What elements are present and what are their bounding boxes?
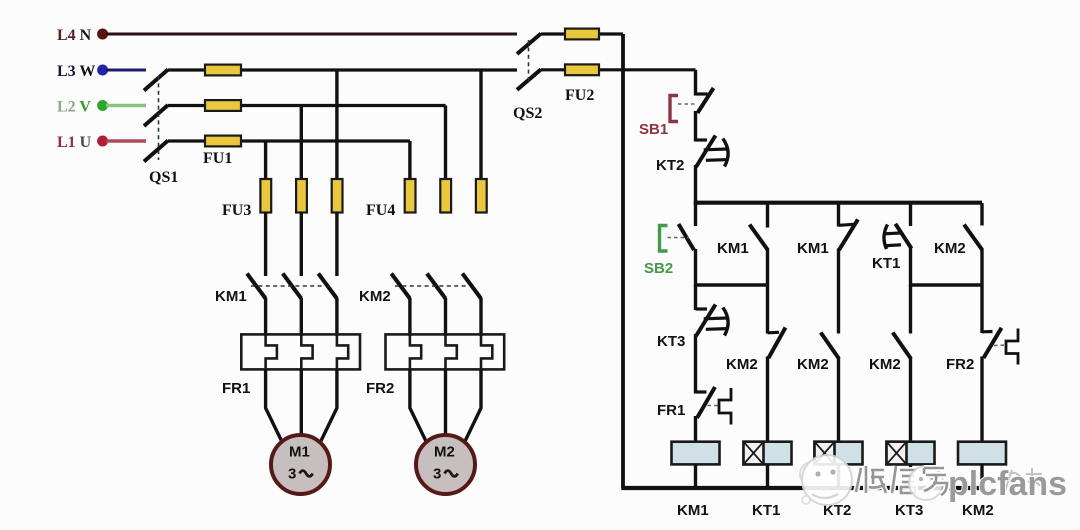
switch QS2 pole 1 blade <box>517 34 541 55</box>
svg-text:KM1: KM1 <box>797 240 829 257</box>
watermark glyph hao <box>924 468 947 495</box>
svg-text:FU3: FU3 <box>222 202 251 219</box>
wire L2 phase after QS1 <box>168 104 446 107</box>
thermal contact FR1 blade <box>697 387 715 418</box>
thermal relay FR2 heater 3 <box>481 334 492 369</box>
fuse FU2 pole 2 <box>565 64 599 75</box>
timer contact KT3 chord upper <box>704 316 727 320</box>
wire KM2 pole2 to FR2 <box>444 298 447 336</box>
watermark wechat bubble 1 <box>800 455 852 505</box>
wire branch3 bus to KM1 NC <box>837 203 840 227</box>
wire KM1 pole2 to FR1 <box>300 298 303 336</box>
node L1 terminal dot <box>97 136 108 147</box>
contactor KM1 linkage dashed <box>251 285 325 287</box>
timer contact KT2 blade <box>696 136 716 168</box>
wire FR1 pole2 to motor M1 <box>300 369 303 437</box>
pushbutton SB1 actuator bracket <box>670 96 678 122</box>
wire KT1 contact to subbus B <box>909 247 912 287</box>
wire drop W phase to FU3 <box>335 70 338 180</box>
svg-text:KM1: KM1 <box>215 288 247 305</box>
fuse FU4 pole 1 <box>405 179 416 213</box>
timer contact KT2 chord upper <box>704 147 727 151</box>
wire KM2 contact to coil KT3 <box>909 357 912 443</box>
watermark glyph xin <box>892 466 916 493</box>
contact KM1 aux NO blade (branch2) <box>750 225 768 251</box>
coil KT2 delay X-box <box>815 442 835 465</box>
motor M2 circle <box>416 435 475 494</box>
wire FR2 pole3 to motor M2 <box>463 369 481 446</box>
switch QS2 pole 2 blade <box>517 69 541 90</box>
contact KM2 aux NO blade (branch5) <box>964 225 982 251</box>
wire coil KM1 to bus <box>694 464 697 488</box>
wire KT3 to FR1 contact <box>694 334 697 394</box>
wire drop U phase to FU4 <box>408 141 411 180</box>
thermal relay FR2 box <box>386 334 505 369</box>
thermal contact FR2 dashed link <box>994 344 1005 346</box>
thermal relay FR2 heater 2 <box>446 334 457 369</box>
wire L4 N rail <box>106 33 517 36</box>
wire subbus B <box>911 283 983 286</box>
wire coil KM2 to bus <box>980 464 983 488</box>
thermal relay FR1 box <box>241 334 360 369</box>
wire KM2 aux to subbus B <box>980 249 983 333</box>
coil KT2 X diagonal 1 <box>815 442 835 465</box>
svg-text:SB2: SB2 <box>644 260 673 277</box>
timer contact KT2 delay arc <box>723 139 728 167</box>
switch QS1 pole 3 blade <box>144 141 168 162</box>
watermark glyph hao ghost <box>924 468 947 495</box>
wire FU3 pole2 to KM1 <box>300 212 303 276</box>
wire subbus A (latch KM1) <box>696 283 768 286</box>
timer contact KT1 delay arc <box>884 225 888 250</box>
contactor KM1 main pole 3 blade <box>318 274 337 299</box>
svg-text:L4 N: L4 N <box>57 27 92 44</box>
svg-text:KM2: KM2 <box>934 240 966 257</box>
wire coil KT2 to bus <box>837 464 840 488</box>
wire subbus A to KT3 <box>694 285 697 310</box>
wire FR2 pole2 to motor M2 <box>444 369 447 437</box>
node L3 terminal dot <box>97 65 108 76</box>
switch QS1 pole 1 blade <box>144 70 168 91</box>
switch QS2 linkage dashed <box>528 40 530 84</box>
fuse FU4 pole 3 <box>476 179 487 213</box>
wire branch5 bus to KM2 aux <box>980 203 983 226</box>
node L2 terminal dot <box>97 100 108 111</box>
wire control left vertical <box>621 34 625 488</box>
svg-text:KM2: KM2 <box>359 288 391 305</box>
wire drop U phase to FU3 <box>264 141 267 180</box>
wire KM2 NC to coil KT1 <box>766 357 769 443</box>
fuse FU1 pole 2 <box>205 100 241 111</box>
contact KM2 NO blade (branch4) <box>893 333 911 359</box>
wire subbus B to KM2 contact (branch4) <box>909 285 912 334</box>
svg-text:FU1: FU1 <box>203 150 232 167</box>
svg-text:3: 3 <box>433 466 441 483</box>
wire control bottom bus <box>621 486 982 490</box>
wire KM1 aux to subbus A <box>766 249 769 334</box>
wire FR1 contact to coil KM1 <box>694 416 697 443</box>
timer contact KT3 delay arc <box>723 308 728 336</box>
wire FR1 pole3 to motor M1 <box>319 369 337 446</box>
svg-text:KM1: KM1 <box>677 502 709 519</box>
coil KT3 X diagonal 1 <box>887 442 907 465</box>
timer contact KT3 bar <box>696 307 708 310</box>
svg-text:FR1: FR1 <box>222 380 250 397</box>
wire coil KT1 to bus <box>766 464 769 488</box>
wire FU3 pole3 to KM1 <box>335 212 338 276</box>
svg-text:FR2: FR2 <box>946 356 974 373</box>
svg-text:L1 U: L1 U <box>57 134 92 151</box>
wire FR2 pole1 to motor M2 <box>410 369 428 446</box>
wire KM2 pole1 to FR2 <box>408 298 411 336</box>
thermal contact FR1 release symbol <box>719 388 731 425</box>
timer contact KT2 bar <box>696 138 708 141</box>
thermal relay FR1 heater 3 <box>337 334 348 369</box>
svg-text:M2: M2 <box>434 444 455 461</box>
fuse FU1 pole 1 <box>205 65 241 76</box>
thermal contact FR2 release symbol <box>1006 329 1018 365</box>
svg-text:KM2: KM2 <box>797 356 829 373</box>
thermal contact FR1 dashed link <box>708 405 720 407</box>
timer contact KT1 chord lower <box>885 245 902 246</box>
svg-text:FU2: FU2 <box>565 87 594 104</box>
wire L1 phase after QS1 <box>168 139 410 142</box>
svg-text:KT2: KT2 <box>656 157 684 174</box>
timer contact KT1 chord upper <box>885 231 901 235</box>
wire KM2 contact to coil KT2 <box>837 357 840 443</box>
wire L2 V stub <box>106 104 146 107</box>
svg-text:KM2: KM2 <box>962 502 994 519</box>
thermal relay FR1 heater 2 <box>301 334 312 369</box>
wire QS2 pole1 to FU2 <box>541 32 623 35</box>
wire branch4 bus to KT1 contact <box>909 203 912 226</box>
watermark glyph wei <box>856 466 886 493</box>
svg-text:plcfans: plcfans <box>948 465 1067 503</box>
pushbutton SB1 blade <box>698 88 714 113</box>
svg-text:KT3: KT3 <box>657 333 685 350</box>
coil KT3 delay X-box <box>887 442 907 465</box>
wire L1 U stub <box>106 139 146 142</box>
fuse FU3 pole 2 <box>296 179 307 213</box>
fuse FU1 pole 3 <box>205 136 241 147</box>
svg-text:KM2: KM2 <box>726 356 758 373</box>
svg-text:FR2: FR2 <box>366 380 394 397</box>
svg-text:QS1: QS1 <box>149 169 178 186</box>
wire QS2 pole2 to FU2 <box>541 68 696 71</box>
watermark ghost glyphs <box>1004 468 1042 494</box>
wire KM1 pole3 to FR1 <box>335 298 338 336</box>
switch QS1 linkage dashed <box>158 76 160 160</box>
node L4 terminal dot <box>97 29 108 40</box>
switch QS1 pole 2 blade <box>144 105 168 126</box>
contact KM2 NO blade (branch3) <box>821 333 839 359</box>
fuse FU4 pole 2 <box>440 179 451 213</box>
pushbutton SB2 blade <box>679 224 695 250</box>
pushbutton SB2 actuator dashed link <box>668 237 690 239</box>
wire control top bus <box>694 201 982 205</box>
svg-text:M1: M1 <box>289 444 310 461</box>
timer contact KT3 chord lower <box>706 327 727 331</box>
wire FR2 contact to coil KM2 <box>980 357 983 443</box>
contactor KM2 main pole 1 blade <box>391 274 410 299</box>
coil KM1 <box>672 442 720 465</box>
svg-text:SB1: SB1 <box>639 121 668 138</box>
wire branch2 bus to KM1 aux <box>766 203 769 228</box>
svg-text:KT1: KT1 <box>872 255 900 272</box>
wire drop V phase to FU3 <box>300 106 303 181</box>
coil KT1 X diagonal 1 <box>744 442 764 465</box>
fuse FU3 pole 3 <box>332 179 343 213</box>
svg-text:FR1: FR1 <box>657 402 685 419</box>
wire KT2 to top bus <box>694 165 697 205</box>
svg-text:KM2: KM2 <box>869 356 901 373</box>
timer contact KT1 blade <box>895 224 911 249</box>
fuse FU3 pole 1 <box>260 179 271 213</box>
motor M1 tilde <box>300 471 313 477</box>
wire L3 W stub <box>106 69 146 72</box>
wire drop V phase to FU4 <box>444 106 447 181</box>
coil KT3 body <box>887 442 935 465</box>
pushbutton SB1 NC bar <box>696 92 708 95</box>
wire FU3 pole1 to KM1 <box>264 212 267 276</box>
svg-text:L2 V: L2 V <box>57 99 91 116</box>
coil KT1 body <box>744 442 792 465</box>
svg-text:QS2: QS2 <box>513 105 542 122</box>
wire KM1 NC to KM2 contact (branch3) <box>837 249 840 334</box>
svg-text:FU4: FU4 <box>366 202 395 219</box>
coil KT2 X diagonal 2 <box>815 442 835 465</box>
coil KT1 X diagonal 2 <box>744 442 764 465</box>
thermal contact FR2 bar <box>982 330 993 333</box>
contact KM2 NC bar (branch2) <box>768 331 780 335</box>
coil KT3 X diagonal 2 <box>887 442 907 465</box>
contactor KM2 main pole 3 blade <box>462 274 481 299</box>
svg-text:L3 W: L3 W <box>57 63 95 80</box>
timer contact KT3 blade <box>696 305 716 337</box>
contactor KM2 linkage dashed <box>395 285 469 287</box>
thermal relay FR2 heater 1 <box>410 334 421 369</box>
thermal contact FR1 bar <box>696 390 707 393</box>
svg-text:KT3: KT3 <box>895 502 923 519</box>
fuse FU2 pole 1 <box>565 29 599 40</box>
pushbutton SB2 actuator bracket <box>660 226 668 252</box>
coil KM2 <box>958 442 1006 465</box>
wire L3 phase after QS1 <box>168 68 517 71</box>
svg-text:KM1: KM1 <box>717 240 749 257</box>
coil KT1 delay X-box <box>744 442 764 465</box>
wire drop W phase to FU4 <box>479 70 482 180</box>
svg-text:KT1: KT1 <box>752 502 780 519</box>
wire SB2 to subbus A <box>694 249 697 287</box>
svg-text:3: 3 <box>288 466 296 483</box>
contact KM1 NC bar (branch3) <box>839 224 855 225</box>
wire coil KT3 to bus <box>909 464 912 488</box>
wire KM2 pole3 to FR2 <box>479 298 482 336</box>
contact KM2 NC blade (branch2) <box>769 328 786 359</box>
wire FR1 pole1 to motor M1 <box>266 369 284 446</box>
coil KT2 body <box>815 442 863 465</box>
contactor KM1 main pole 2 blade <box>283 274 302 299</box>
timer contact KT2 chord lower <box>706 158 727 162</box>
contactor KM2 main pole 2 blade <box>427 274 446 299</box>
thermal contact FR2 blade <box>984 328 1002 358</box>
motor M1 circle <box>271 435 330 494</box>
wire FU2 pole2 down to SB1 <box>694 70 697 96</box>
motor M2 tilde <box>445 471 458 477</box>
thermal relay FR1 heater 1 <box>266 334 277 369</box>
contactor KM1 main pole 1 blade <box>247 274 266 299</box>
watermark wechat bubble 2 <box>909 466 943 500</box>
wire branch1 bus to SB2 <box>694 203 697 226</box>
contact KM1 NC blade (branch3) <box>839 219 858 250</box>
wire SB1 to KT2 <box>694 111 697 142</box>
wire KM1 pole1 to FR1 <box>264 298 267 336</box>
pushbutton SB1 actuator dashed link <box>678 103 695 105</box>
